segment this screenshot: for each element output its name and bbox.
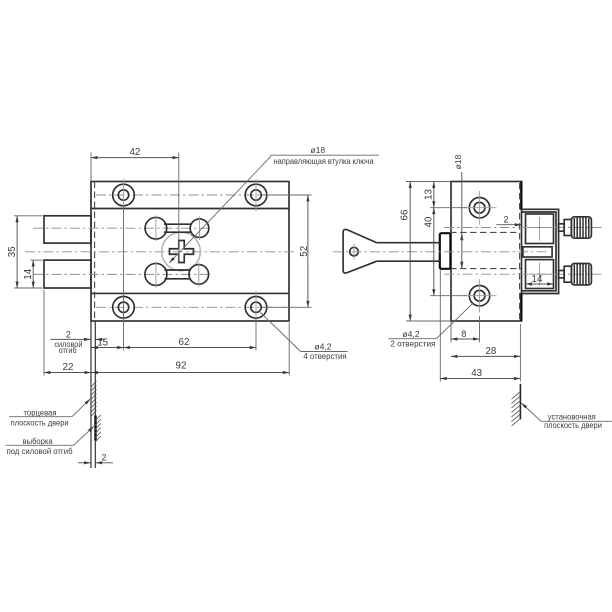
svg-text:2: 2 xyxy=(101,452,106,462)
upper knob block xyxy=(526,214,554,244)
centerline: top screw row (front view) xyxy=(96,194,286,196)
front view: lock body outline xyxy=(91,182,289,322)
dimension 2 (cover plate, side view) xyxy=(496,215,521,225)
dimension 15 xyxy=(92,207,124,351)
door mounting plane line xyxy=(519,384,521,420)
upper knob knurled head xyxy=(571,217,591,238)
svg-text:4 отверстия: 4 отверстия xyxy=(303,351,347,361)
centerline: upper knob axis xyxy=(444,227,602,229)
svg-text:13: 13 xyxy=(423,189,434,200)
centerline: lower bolt row xyxy=(33,273,210,275)
recess line (выборка) xyxy=(94,321,96,468)
key head hole xyxy=(350,247,359,256)
svg-text:52: 52 xyxy=(299,246,310,257)
svg-text:отгиб: отгиб xyxy=(59,345,77,355)
dimension 2 (bottom recess depth) xyxy=(78,452,113,462)
svg-text:2: 2 xyxy=(66,329,71,339)
svg-text:14: 14 xyxy=(23,268,34,279)
svg-text:35: 35 xyxy=(7,246,18,257)
svg-text:2: 2 xyxy=(503,215,508,225)
label торцевая плоскость двери xyxy=(9,399,90,428)
front view: lower latch bolt xyxy=(44,260,91,288)
centerline: main horizontal axis (front view) xyxy=(25,251,294,253)
side view: bottom edge extension xyxy=(406,320,451,322)
key shaft xyxy=(377,243,440,262)
label установочная плоскость двери xyxy=(521,403,612,430)
centerline: bottom screw row (front view) xyxy=(96,306,286,308)
knob housing inner frame xyxy=(522,212,557,291)
side view: body outline xyxy=(451,182,522,322)
side view: hidden keyway bottom (dashed) xyxy=(450,268,521,270)
side screw hole bottom xyxy=(463,279,497,313)
side view: hidden door surface line (dashed) xyxy=(519,183,521,320)
lower knob neck xyxy=(564,266,571,282)
knob housing outer frame xyxy=(522,209,559,293)
svg-text:направляющая втулка ключа: направляющая втулка ключа xyxy=(274,156,374,166)
side view: top edge extension xyxy=(406,181,451,183)
svg-text:28: 28 xyxy=(485,346,496,357)
front screw hole bottom-right xyxy=(245,291,267,324)
dimension 13 xyxy=(423,182,467,208)
lower block crosshair xyxy=(528,263,552,286)
label выборка под силовой отгиб xyxy=(6,426,94,455)
lower crank slot: link bars xyxy=(165,270,191,279)
svg-text:62: 62 xyxy=(179,337,190,348)
dimension 42 xyxy=(91,147,179,263)
label ø4,2 2 отверстия xyxy=(388,303,473,348)
key head xyxy=(343,229,377,273)
svg-text:выборка: выборка xyxy=(23,436,53,446)
svg-text:40: 40 xyxy=(423,216,434,227)
side screw hole top xyxy=(463,191,497,225)
svg-text:42: 42 xyxy=(129,147,140,158)
centerline: upper bolt row xyxy=(33,227,210,229)
dimension 22 xyxy=(44,290,91,376)
dimension 43 xyxy=(440,270,520,382)
key head hole vertical tick xyxy=(353,244,355,260)
dimension 52 xyxy=(262,195,312,307)
svg-text:плоскость двери: плоскость двери xyxy=(11,418,69,428)
label ø4,2 4 отверстия xyxy=(260,312,347,361)
dimension 8 xyxy=(451,316,480,343)
door end plane hatching xyxy=(91,381,97,416)
key bushing circle (light, dia 18) xyxy=(162,232,201,271)
upper knob neck xyxy=(564,220,571,236)
mounting plane hatching xyxy=(512,392,521,427)
svg-text:под силовой отгиб: под силовой отгиб xyxy=(7,446,73,456)
svg-text:66: 66 xyxy=(400,209,411,220)
svg-text:8: 8 xyxy=(461,329,466,339)
svg-text:ø18: ø18 xyxy=(310,145,325,155)
dimension 40 xyxy=(423,208,467,296)
front view: bottom faceplate strip line xyxy=(91,292,289,294)
front screw hole top-right xyxy=(245,179,267,212)
dimension 14 (left bolt) xyxy=(23,260,43,288)
svg-text:14: 14 xyxy=(532,274,543,285)
front screw hole bottom-left xyxy=(113,291,135,324)
lower knob knurled head xyxy=(571,264,591,285)
front view: upper latch bolt xyxy=(44,216,91,243)
lower knob block xyxy=(526,260,554,289)
svg-text:ø18: ø18 xyxy=(453,154,463,169)
dimension 35 xyxy=(7,216,43,288)
dimension 66 xyxy=(400,182,411,322)
upper knob stem xyxy=(559,224,565,231)
dimension ø18 (bushing, side view) xyxy=(453,154,464,268)
side view: thick right edge (cover plate) upper segment xyxy=(520,182,522,210)
centerline: lower knob axis xyxy=(444,273,602,275)
cross-shaped keyhole xyxy=(170,241,194,263)
svg-text:92: 92 xyxy=(176,361,187,372)
upper block crosshair xyxy=(528,217,552,241)
front screw hole top-left xyxy=(113,179,135,212)
lower crank slot: left circle xyxy=(145,263,167,285)
svg-text:торцевая: торцевая xyxy=(24,408,57,418)
upper crank slot: right circle xyxy=(190,219,209,238)
dimension 28 xyxy=(451,346,520,357)
crank slot vertical center ticks xyxy=(156,216,200,288)
lower knob stem xyxy=(559,271,565,278)
latch slider bar xyxy=(523,247,552,257)
lower crank slot: right circle xyxy=(189,265,209,285)
svg-text:22: 22 xyxy=(63,362,74,373)
front view: hidden edge of cover plate (dashed) xyxy=(94,182,96,322)
svg-text:2 отверстия: 2 отверстия xyxy=(390,338,435,348)
centerline: main axis (side view) xyxy=(333,251,547,253)
recess hatching xyxy=(95,415,101,442)
dimension 62 xyxy=(124,319,257,351)
upper crank slot: link bars xyxy=(164,224,192,232)
front view: top faceplate strip line xyxy=(91,208,289,210)
svg-text:плоскость двери: плоскость двери xyxy=(544,420,602,430)
dimension 2 (силовой отгиб) xyxy=(50,329,105,355)
upper crank slot: left circle xyxy=(145,217,167,239)
key bushing (side view) xyxy=(440,233,451,269)
side view: thick right edge (cover plate) lower segment xyxy=(520,293,522,321)
svg-text:43: 43 xyxy=(471,368,482,379)
dimension 92 xyxy=(92,323,290,376)
door end plane line xyxy=(90,321,92,468)
dimension 14 (knob block) xyxy=(526,274,554,285)
recess thick segment xyxy=(94,416,96,441)
mounting plane extension xyxy=(519,324,521,382)
side view: hidden keyway top (dashed) xyxy=(450,231,519,233)
label ø18 направляющая втулка ключа xyxy=(169,145,379,263)
